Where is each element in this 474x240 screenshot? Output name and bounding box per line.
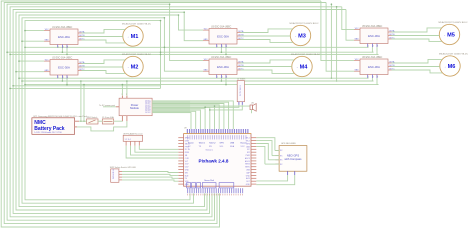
pixhawk bottom pin numbers	[186, 194, 189, 196]
connector J2 bottom pins	[238, 102, 240, 105]
svg-text:SPI: SPI	[247, 152, 250, 154]
wire signal row B	[7, 51, 373, 53]
wire J2 pin1 to band	[205, 105, 239, 107]
wire ESC3 VCC feed drop	[179, 15, 204, 30]
power module left pin	[116, 106, 119, 108]
wire battery riser 2	[83, 85, 85, 122]
wire pixhawk GPS port 2	[256, 141, 272, 156]
GPS U10 box	[279, 146, 307, 172]
ESC U1 pin OUT C	[78, 39, 82, 41]
motor M3 circle	[290, 25, 310, 45]
svg-text:M1: M1	[131, 34, 139, 40]
ESC U4 pin OUT A	[237, 62, 241, 64]
wire col3 signal riser D	[330, 4, 332, 78]
wire ESC2 GND from bus	[16, 71, 44, 73]
ESC U3 pin OUT C	[237, 39, 241, 41]
wire phase B	[241, 66, 292, 68]
wire ESC4 signal stubs	[216, 77, 218, 79]
svg-text:GND: GND	[45, 40, 50, 42]
fuse F1 box	[102, 119, 113, 124]
ESC U3 bottom pin 3	[225, 44, 227, 48]
svg-text:SER5: SER5	[245, 167, 250, 169]
svg-text:U1 ESC-30A-UBEC: U1 ESC-30A-UBEC	[52, 26, 73, 29]
wire pixhawk GPS port 4	[256, 146, 265, 164]
pixhawk top pin name row	[186, 135, 189, 139]
wire J2 pin2 to band	[210, 105, 243, 110]
ESC U6 box	[360, 59, 388, 75]
ESC U3 box	[209, 29, 237, 45]
svg-text:NEO GPS: NEO GPS	[287, 154, 299, 158]
ESC U5 bottom pin 1	[367, 44, 369, 48]
svg-text:SW LED 5V: SW LED 5V	[113, 168, 115, 179]
wire battery minus U-dip to power module	[77, 121, 127, 131]
svg-text:GND: GND	[204, 70, 209, 72]
wire phase B	[82, 36, 123, 38]
wire battery riser 1	[80, 81, 82, 121]
svg-text:M6: M6	[448, 64, 456, 70]
svg-text:GND: GND	[185, 184, 190, 186]
svg-text:M1 A2212/13T 1000KV BLDC: M1 A2212/13T 1000KV BLDC	[122, 23, 151, 26]
svg-text:M2: M2	[131, 65, 139, 71]
ESC U3 pin GND	[203, 40, 209, 42]
svg-text:U8 FS-iA6B Receiver: U8 FS-iA6B Receiver	[123, 132, 143, 135]
svg-text:1: 1	[58, 77, 59, 79]
wire power bus 1 (left/top/bottom run)	[1, 1, 321, 227]
svg-text:Telem2: Telem2	[209, 143, 216, 145]
wire power module top pin riser 1	[121, 85, 123, 96]
wire phase A	[241, 29, 293, 33]
ESC U5 pin OUT B	[388, 35, 392, 37]
svg-text:Telem1: Telem1	[199, 143, 206, 145]
svg-text:2: 2	[126, 94, 127, 96]
svg-text:U4 ESC-30A-UBEC: U4 ESC-30A-UBEC	[211, 56, 232, 59]
svg-text:SW1 Switch: SW1 Switch	[87, 116, 98, 119]
battery pin -	[75, 126, 77, 128]
svg-text:1 2 3 4: 1 2 3 4	[125, 139, 132, 141]
motor M2 circle	[123, 56, 143, 76]
ESC U6 bottom pin 3	[376, 75, 378, 79]
wire receiver ch1 to pixhawk	[126, 146, 178, 158]
ESC U2 bottom pin 1	[57, 75, 59, 79]
wire ESC4 VCC feed drop	[170, 4, 203, 60]
wire switch to fuse	[98, 120, 102, 122]
svg-text:SDA: SDA	[230, 145, 235, 148]
svg-text:J2 Telem: J2 Telem	[237, 79, 246, 81]
motor M1 circle	[123, 26, 143, 46]
svg-text:Servo Rail: Servo Rail	[204, 179, 214, 182]
svg-text:GPS NEO-M8N: GPS NEO-M8N	[281, 143, 296, 145]
wire GPS compass return 1	[256, 175, 287, 181]
ESC U2 pin OUT B	[78, 66, 82, 68]
wire ESC5 signal stubs	[367, 46, 370, 48]
ESC U3 bottom pin 2	[220, 44, 222, 48]
wire receiver ch3 to pixhawk	[135, 146, 178, 153]
svg-text:GND: GND	[246, 184, 251, 186]
junction dots mid vertical	[160, 51, 162, 53]
svg-text:M5 A2212/13T 1000KV BLDC: M5 A2212/13T 1000KV BLDC	[439, 21, 468, 24]
svg-text:14.8V 22000mAh 25C XT90: 14.8V 22000mAh 25C XT90	[34, 131, 62, 134]
safety switch pins and wires	[119, 171, 122, 173]
wire phase C	[392, 39, 442, 41]
ESC U4 box	[209, 59, 237, 75]
ESC U5 pin OUT A	[388, 31, 392, 33]
svg-text:GND: GND	[185, 170, 190, 172]
ESC U6 pin VCC	[354, 60, 360, 62]
ESC U1 bottom pin 2	[61, 45, 63, 49]
battery pin +	[75, 120, 79, 122]
junction dots on top rails	[169, 3, 171, 5]
power module U7 box	[119, 98, 152, 116]
wire GPS compass return 2	[256, 175, 294, 185]
switch SW1 box	[87, 119, 98, 124]
svg-text:PPM: PPM	[185, 146, 189, 148]
svg-text:M3 A2212/13T 1000KV BLDC: M3 A2212/13T 1000KV BLDC	[290, 22, 319, 25]
svg-text:1: 1	[217, 77, 218, 79]
svg-text:ESC-30A: ESC-30A	[217, 65, 229, 69]
svg-text:U5 ESC-30A-UBEC: U5 ESC-30A-UBEC	[362, 25, 383, 28]
ESC U6 pin OUT C	[388, 69, 392, 71]
ESC U5 bottom pin 3	[376, 44, 378, 48]
svg-text:M6 A2212/13T 1000KV BLDC: M6 A2212/13T 1000KV BLDC	[439, 53, 468, 56]
wire phase A	[241, 60, 295, 63]
ESC U4 pin OUT B	[237, 66, 241, 68]
wire ESC6 GND feed drop	[326, 3, 354, 72]
wire receiver ch4 to pixhawk	[139, 146, 178, 150]
wire power bus 3 (left/top/bottom run)	[7, 4, 214, 220]
svg-text:ESC-30A: ESC-30A	[58, 65, 70, 69]
ESC U4 bottom pin 3	[225, 75, 227, 79]
svg-text:GND: GND	[246, 175, 251, 177]
wire pixhawk GPS port 3	[256, 144, 268, 160]
wire power bus 6 (left/top/bottom run)	[16, 12, 207, 210]
svg-text:Module: Module	[130, 106, 139, 110]
wire mid drop to signal row	[160, 21, 162, 89]
pixhawk left pins	[178, 137, 183, 139]
wire ESC2 signal stubs	[57, 77, 59, 79]
wire ESC1 VCC from bus	[25, 30, 44, 32]
ESC U2 bottom pin 3	[66, 75, 68, 79]
svg-text:5V TX RX G: 5V TX RX G	[240, 85, 242, 96]
svg-text:SBUS: SBUS	[185, 143, 191, 145]
ESC U4 pin GND	[203, 70, 209, 72]
svg-text:VCC: VCC	[241, 146, 246, 148]
svg-text:3: 3	[67, 77, 68, 79]
svg-text:M2 A2212/13T 1000KV BLDC: M2 A2212/13T 1000KV BLDC	[122, 53, 151, 56]
svg-text:Pixhawk 2.4.8: Pixhawk 2.4.8	[199, 159, 229, 164]
ESC U1 pin GND	[44, 40, 50, 42]
ESC U2 pin GND	[44, 71, 50, 73]
svg-text:GND: GND	[355, 39, 360, 41]
motor M6 circle	[440, 56, 460, 76]
pixhawk top pin row	[187, 129, 188, 133]
wire battery plus to switch	[79, 120, 87, 122]
svg-text:PWR: PWR	[246, 155, 251, 157]
motor M4 circle	[292, 56, 312, 76]
wire phase C	[392, 70, 443, 73]
wire power bus 9 (left/top/bottom run)	[25, 21, 190, 200]
wire phase B	[82, 66, 123, 68]
wire fuse to power module	[114, 120, 123, 122]
wire signal row E	[22, 80, 374, 82]
wire phase B	[392, 35, 440, 37]
wire ESC3 GND feed drop	[184, 12, 203, 41]
wire power module top pin riser 2	[126, 81, 128, 96]
svg-text:ADC3: ADC3	[245, 157, 250, 160]
svg-text:F1 Fuse 60A: F1 Fuse 60A	[102, 116, 114, 119]
svg-text:5V VCC: 5V VCC	[145, 112, 151, 114]
wire power bus 4 (left/top/bottom run)	[10, 7, 342, 217]
svg-text:3: 3	[67, 47, 68, 49]
svg-text:M3: M3	[298, 34, 306, 40]
ESC U2 pin VCC	[44, 60, 50, 62]
svg-text:with Compass: with Compass	[285, 157, 303, 161]
wire phase B	[392, 66, 440, 68]
ESC U5 bottom pin 2	[371, 44, 373, 48]
wire pixhawk GPS port 1	[256, 138, 275, 151]
wire phase C	[241, 40, 293, 43]
wire ESC5 VCC feed drop	[342, 7, 354, 30]
ESC U3 pin OUT A	[237, 32, 241, 34]
svg-text:M5: M5	[447, 33, 455, 39]
ESC U6 bottom pin 1	[367, 75, 369, 79]
ESC U3 pin OUT B	[237, 35, 241, 37]
svg-text:TEL2: TEL2	[246, 141, 250, 143]
wire signal row F2	[13, 85, 160, 87]
ESC U4 pin OUT C	[237, 69, 241, 71]
svg-text:SW2 Safety Switch GPS LED: SW2 Safety Switch GPS LED	[110, 166, 137, 169]
motor M5 circle	[439, 24, 459, 44]
safety switch SW2 box	[111, 169, 119, 182]
svg-text:USB: USB	[230, 143, 235, 145]
svg-text:ESC-30A: ESC-30A	[217, 34, 229, 38]
ESC U3 pin VCC	[203, 29, 209, 31]
wire phase A	[82, 29, 126, 33]
svg-text:DSM: DSM	[185, 141, 189, 143]
ESC U1 pin VCC	[44, 30, 50, 32]
ESC U1 bottom pin 1	[57, 45, 59, 49]
pixhawk bottom pin stubs	[186, 188, 189, 193]
svg-text:RSSI: RSSI	[185, 152, 190, 154]
pixhawk right pins	[251, 137, 256, 139]
svg-text:SW: SW	[185, 172, 188, 174]
svg-text:Battery Pack: Battery Pack	[34, 126, 65, 132]
svg-text:GND: GND	[45, 70, 50, 72]
connector J2 telemetry box	[237, 81, 244, 102]
ESC U1 box	[50, 29, 78, 45]
wire signal row C	[10, 53, 378, 55]
ESC U6 pin GND	[354, 70, 360, 72]
wire phase A	[392, 59, 443, 63]
ESC U2 pin OUT C	[78, 70, 82, 72]
ESC U2 bottom pin 2	[61, 75, 63, 79]
wire signal row G	[10, 87, 160, 89]
wire signal row F	[25, 84, 379, 86]
power module bottom pins	[121, 116, 123, 121]
receiver bottom pins	[125, 141, 127, 145]
ESC U6 pin OUT A	[388, 62, 392, 64]
ESC U4 bottom pin 1	[216, 75, 218, 79]
svg-text:SER4: SER4	[245, 164, 250, 166]
wire phase A	[392, 28, 442, 32]
wire phase C	[82, 40, 126, 43]
svg-text:U3 ESC-30A-UBEC: U3 ESC-30A-UBEC	[211, 25, 232, 28]
svg-text:ADC6: ADC6	[245, 160, 250, 163]
wire phase B	[241, 35, 291, 37]
wire ESC6 VCC feed drop	[321, 1, 354, 61]
ESC U6 pin OUT B	[388, 66, 392, 68]
power module top pins	[121, 96, 123, 99]
ESC U4 pin VCC	[203, 60, 209, 62]
pixhawk U9 box	[184, 134, 251, 187]
svg-text:TEL1: TEL1	[246, 138, 250, 140]
svg-text:GPS: GPS	[220, 143, 225, 145]
GPS left pins	[275, 150, 279, 152]
svg-text:1: 1	[217, 46, 218, 48]
svg-text:M4 A2212/13T 1000KV BLDC: M4 A2212/13T 1000KV BLDC	[291, 53, 320, 56]
wire ESC3 signal stubs	[216, 46, 218, 48]
buzzer LS1 symbol	[250, 105, 253, 110]
buzzer ground stub	[251, 110, 253, 114]
wire signal row D (row2 ESC signals)	[19, 77, 369, 79]
svg-text:RC IN: RC IN	[185, 149, 191, 151]
svg-text:U2 ESC-30A-UBEC: U2 ESC-30A-UBEC	[52, 56, 73, 59]
wire ESC2 VCC from bus	[19, 60, 44, 62]
wire ESC1 GND from bus	[22, 40, 44, 42]
battery BT1 box	[32, 118, 75, 135]
ESC U6 bottom pin 2	[371, 75, 373, 79]
pixhawk main out boxes	[187, 183, 191, 188]
wire col3 signal riser E	[336, 7, 338, 81]
wire band power module to pixhawk top	[152, 100, 190, 113]
wire signal row A (row1 ESC signals)	[25, 46, 369, 48]
wire power bus 8 (left/top/bottom run)	[22, 18, 194, 203]
wire receiver ch2 to pixhawk	[131, 146, 179, 155]
ESC U1 pin OUT B	[78, 36, 82, 38]
svg-text:CUR: CUR	[185, 158, 190, 160]
wire power bus 5 (left/top/bottom run)	[13, 10, 346, 214]
svg-text:ESC-30A: ESC-30A	[368, 65, 380, 69]
ESC U4 bottom pin 2	[220, 75, 222, 79]
ESC U5 pin OUT C	[388, 38, 392, 40]
wire power bus 7 (left/top/bottom run)	[19, 15, 205, 207]
wire ESC5 GND feed drop	[346, 10, 354, 41]
wire ESC1 signal stubs	[57, 46, 59, 49]
ESC U1 bottom pin 3	[66, 45, 68, 49]
GPS bottom pins	[287, 171, 289, 175]
wire phase C	[241, 70, 295, 73]
receiver U8 box	[123, 135, 142, 141]
svg-text:ESC-30A: ESC-30A	[368, 34, 380, 38]
wire ESC4 GND feed drop	[164, 18, 203, 71]
wire phase C	[82, 71, 126, 74]
svg-text:Sensors: Sensors	[206, 150, 213, 152]
ESC U5 box	[360, 28, 388, 44]
ESC U2 pin OUT A	[78, 63, 82, 65]
ESC U5 pin VCC	[354, 29, 360, 31]
ESC U5 pin GND	[354, 39, 360, 41]
svg-text:M4: M4	[300, 65, 309, 71]
ESC U3 bottom pin 1	[216, 44, 218, 48]
svg-text:GND: GND	[204, 39, 209, 41]
wire phase A	[82, 60, 126, 64]
ESC U2 box	[50, 60, 78, 76]
svg-text:1: 1	[122, 94, 123, 96]
svg-text:ESC-30A: ESC-30A	[58, 35, 70, 39]
svg-text:U6 ESC-30A-UBEC: U6 ESC-30A-UBEC	[362, 56, 383, 59]
svg-text:GND: GND	[355, 70, 360, 72]
svg-text:LS1: LS1	[251, 103, 254, 105]
ESC U1 pin OUT A	[78, 32, 82, 34]
wire power bus 2 (left/top/bottom run)	[4, 3, 326, 224]
wire ESC6 signal stubs	[367, 77, 370, 79]
svg-text:BT1 Samsung INR21700-50E 14S4: BT1 Samsung INR21700-50E 14S4P 51.8V Li-…	[34, 116, 89, 118]
